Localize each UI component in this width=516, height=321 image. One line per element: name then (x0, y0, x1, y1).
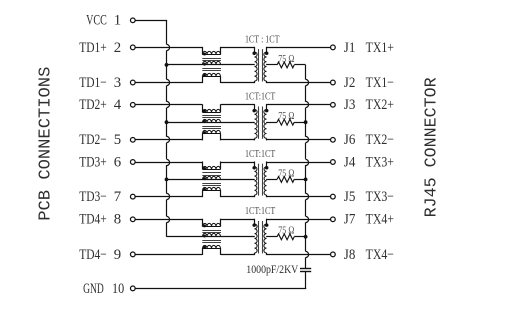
wire center tap CT4 bus to primary (167, 236, 255, 238)
pin label J8 TX4− (344, 247, 394, 263)
wire T2 secondary bottom to J6 TX2− (266, 139, 330, 141)
pin J7 terminal circle (331, 217, 336, 222)
node CT1 junction on VCC bus (165, 63, 169, 67)
svg-text:J7: J7 (344, 212, 356, 228)
svg-text:TD4+: TD4+ (79, 212, 107, 228)
wire TD4- pin to choke L4 (135, 254, 202, 256)
pin J3 terminal circle (331, 102, 336, 107)
node R3 junction on rail (304, 178, 308, 182)
svg-text:PCB CONNECTIONS: PCB CONNECTIONS (35, 67, 54, 221)
wire choke L3 to transformer T3 primary bottom (221, 196, 255, 198)
svg-text:1CT : 1CT: 1CT : 1CT (245, 34, 280, 45)
svg-text:TX2+: TX2+ (366, 97, 394, 113)
node R2 junction on rail (304, 120, 308, 124)
pin label TD4− 9 (79, 247, 121, 263)
wire choke L2 to transformer T2 primary bottom (221, 139, 255, 141)
svg-text:75 Ω: 75 Ω (278, 168, 294, 179)
pin label TD2+ 4 (79, 97, 121, 113)
wire VCC center-tap bus (167, 20, 170, 237)
svg-text:TD1−: TD1− (79, 75, 107, 91)
svg-text:J1: J1 (344, 40, 356, 56)
wire VCC pin 1 to bus (135, 20, 167, 22)
svg-text:TX1−: TX1− (366, 75, 394, 91)
wire T3 secondary top to J4 TX3+ (266, 162, 330, 164)
wire center tap CT1 bus to primary (167, 64, 255, 66)
svg-text:75 Ω: 75 Ω (278, 226, 294, 237)
pin J5 terminal circle (331, 194, 336, 199)
svg-text:10: 10 (112, 281, 124, 297)
wire choke L2 to transformer T2 primary top (221, 104, 255, 106)
pin J4 terminal circle (331, 160, 336, 165)
resistor R3 75 ohm (266, 177, 306, 183)
wire TD3+ pin to choke L3 (135, 162, 202, 164)
pin J6 terminal circle (331, 137, 336, 142)
svg-text:75 Ω: 75 Ω (278, 54, 294, 65)
svg-text:TX3−: TX3− (366, 189, 394, 205)
wire TD1+ pin to choke L1 (135, 47, 202, 49)
svg-text:TD2+: TD2+ (79, 97, 107, 113)
svg-text:7: 7 (114, 189, 122, 205)
pin 8 terminal circle (130, 217, 135, 222)
pin label VCC 1 (86, 13, 121, 29)
pin label J3 TX2+ (344, 97, 394, 113)
pin label J4 TX3+ (344, 154, 394, 170)
wire choke L1 to transformer T1 primary top (221, 47, 255, 49)
pin 4 terminal circle (130, 102, 135, 107)
pin 1 terminal circle (130, 18, 135, 23)
pin J8 terminal circle (331, 252, 336, 257)
svg-text:TX2−: TX2− (366, 132, 394, 148)
resistor R4 75 ohm (266, 234, 306, 240)
svg-text:1CT:1CT: 1CT:1CT (245, 92, 275, 103)
pin 7 terminal circle (130, 194, 135, 199)
svg-text:6: 6 (114, 154, 122, 170)
svg-text:5: 5 (114, 132, 121, 148)
svg-text:TD4−: TD4− (79, 247, 107, 263)
wire TD3- pin to choke L3 (135, 196, 202, 198)
svg-text:9: 9 (114, 247, 121, 263)
wire center tap CT2 bus to primary (167, 122, 255, 124)
wire TD2- pin to choke L2 (135, 139, 202, 141)
svg-text:TD2−: TD2− (79, 132, 107, 148)
pin label TD4+ 8 (79, 212, 121, 228)
svg-text:TD1+: TD1+ (79, 40, 107, 56)
pin label TD3+ 6 (79, 154, 121, 170)
svg-text:J4: J4 (344, 154, 356, 170)
wire T3 secondary bottom to J5 TX3− (266, 196, 330, 198)
wire T4 secondary top to J7 TX4+ (266, 219, 330, 221)
svg-text:J6: J6 (344, 132, 356, 148)
wire T2 secondary top to J3 TX2+ (266, 104, 330, 106)
svg-text:75 Ω: 75 Ω (278, 111, 294, 122)
wire choke L3 to transformer T3 primary top (221, 162, 255, 164)
wire GND pin 10 to capacitor C1 (135, 288, 306, 290)
wire TD4+ pin to choke L4 (135, 219, 202, 221)
wire T1 secondary bottom to J2 TX1− (266, 82, 330, 84)
svg-text:J2: J2 (344, 75, 356, 91)
svg-text:3: 3 (114, 75, 121, 91)
svg-text:TD3−: TD3− (79, 189, 107, 205)
resistor R2 75 ohm (266, 119, 306, 125)
pin 5 terminal circle (130, 137, 135, 142)
pin J1 terminal circle (331, 45, 336, 50)
pin label TD1− 3 (79, 75, 121, 91)
wire choke L4 to transformer T4 primary bottom (221, 254, 255, 256)
svg-text:1CT:1CT: 1CT:1CT (245, 149, 275, 160)
pin 6 terminal circle (130, 160, 135, 165)
pin label J7 TX4+ (344, 212, 394, 228)
pin label J1 TX1+ (344, 40, 394, 56)
pin label TD1+ 2 (79, 40, 121, 56)
pin 10 terminal circle (130, 286, 135, 291)
pin label GND 10 (83, 281, 124, 297)
svg-text:J3: J3 (344, 97, 356, 113)
transformer T3 (252, 161, 268, 197)
wire T1 secondary top to J1 TX1+ (266, 47, 330, 49)
wire TD2+ pin to choke L2 (135, 104, 202, 106)
resistor R1 75 ohm (266, 62, 306, 68)
pin label J2 TX1− (344, 75, 394, 91)
wire termination rail to capacitor (306, 65, 309, 269)
svg-text:1000pF/2KV: 1000pF/2KV (246, 262, 298, 276)
node R4 junction on rail (304, 235, 308, 239)
svg-text:RJ45 CONNECTOR: RJ45 CONNECTOR (421, 77, 440, 217)
pin 2 terminal circle (130, 45, 135, 50)
pin label J5 TX3− (344, 189, 394, 205)
pin label TD3− 7 (79, 189, 121, 205)
common-mode choke L3 (202, 161, 221, 197)
svg-text:1: 1 (114, 13, 121, 29)
transformer T2 (252, 104, 268, 140)
pin label TD2− 5 (79, 132, 121, 148)
svg-text:J8: J8 (344, 247, 356, 263)
wire TD1- pin to choke L1 (135, 82, 202, 84)
wire choke L1 to transformer T1 primary bottom (221, 82, 255, 84)
common-mode choke L1 (202, 47, 221, 83)
svg-text:1CT:1CT: 1CT:1CT (245, 206, 275, 217)
common-mode choke L4 (202, 219, 221, 255)
svg-text:8: 8 (114, 212, 121, 228)
transformer T1 (252, 47, 268, 83)
pin J2 terminal circle (331, 80, 336, 85)
wire T4 secondary bottom to J8 TX4− (266, 254, 330, 256)
transformer T4 (252, 219, 268, 255)
capacitor C1 1000pF/2KV (300, 269, 311, 272)
pin label J6 TX2− (344, 132, 394, 148)
svg-text:TD3+: TD3+ (79, 154, 107, 170)
svg-text:VCC: VCC (86, 13, 107, 29)
pin 3 terminal circle (130, 80, 135, 85)
svg-text:TX4−: TX4− (366, 247, 394, 263)
wire center tap CT3 bus to primary (167, 179, 255, 181)
svg-text:TX1+: TX1+ (366, 40, 394, 56)
svg-text:J5: J5 (344, 189, 356, 205)
svg-text:GND: GND (83, 281, 104, 297)
pin 9 terminal circle (130, 252, 135, 257)
node CT3 junction on VCC bus (165, 178, 169, 182)
svg-text:TX4+: TX4+ (366, 212, 394, 228)
svg-text:TX3+: TX3+ (366, 154, 394, 170)
svg-text:2: 2 (114, 40, 121, 56)
wire choke L4 to transformer T4 primary top (221, 219, 255, 221)
svg-text:4: 4 (114, 97, 122, 113)
node CT2 junction on VCC bus (165, 120, 169, 124)
common-mode choke L2 (202, 104, 221, 140)
